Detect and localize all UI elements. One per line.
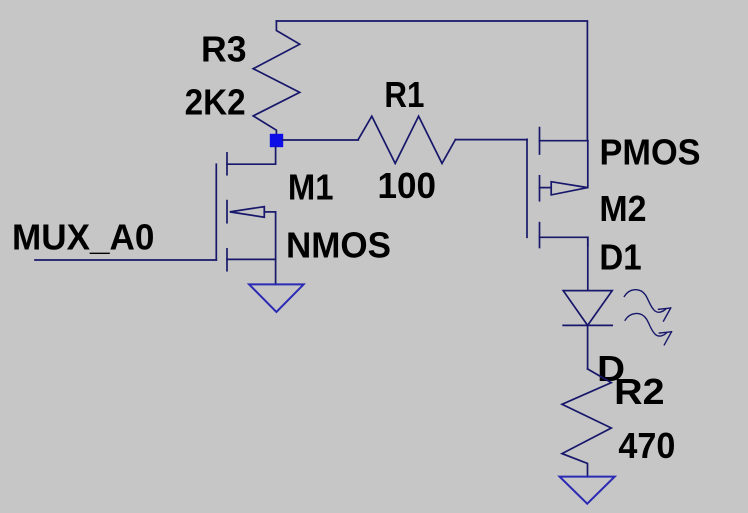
- gate bar: [526, 139, 528, 237]
- svg-text:R3: R3: [201, 29, 247, 70]
- svg-text:MUX_A0: MUX_A0: [12, 217, 154, 258]
- gate bar: [215, 164, 217, 260]
- source lead: [227, 259, 276, 284]
- wire node to R1: [283, 139, 358, 141]
- svg-text:R1: R1: [384, 74, 424, 115]
- ground at M1 source: [249, 284, 304, 312]
- resistor R1: [358, 116, 455, 163]
- LED emission arrow lower: [625, 313, 671, 344]
- drain lead: [227, 147, 276, 164]
- channel bottom segment: [226, 249, 228, 271]
- wire M2 drain to D1 anode: [587, 237, 589, 290]
- svg-text:470: 470: [618, 425, 675, 466]
- svg-text:PMOS: PMOS: [600, 131, 701, 172]
- svg-text:M2: M2: [599, 188, 646, 229]
- wire R1 right to M2 gate: [455, 139, 527, 141]
- channel middle segment: [226, 201, 228, 223]
- svg-text:M1: M1: [288, 167, 334, 208]
- transistor M2 PMOS: [527, 128, 588, 248]
- channel top segment: [539, 128, 541, 154]
- svg-text:D1: D1: [599, 237, 641, 278]
- svg-text:R2: R2: [614, 371, 664, 412]
- drain lead: [540, 237, 588, 246]
- diode D1 LED: [563, 291, 612, 326]
- wire top rail from R3 top to M2 source column: [276, 21, 587, 141]
- LED emission arrow upper: [624, 290, 670, 321]
- node junction at R3 bottom / M1 drain / R1 left: [270, 134, 283, 147]
- channel bottom segment: [539, 223, 541, 248]
- wire MUX_A0 to M1 gate: [35, 259, 216, 261]
- channel middle segment: [539, 176, 541, 201]
- resistor R2: [562, 369, 611, 477]
- resistor R3: [253, 21, 300, 141]
- svg-text:100: 100: [378, 165, 437, 206]
- body arrow: [540, 187, 552, 189]
- wire D1 cathode to R2, net D: [587, 325, 589, 369]
- svg-text:NMOS: NMOS: [286, 225, 391, 266]
- transistor M1 NMOS: [216, 147, 275, 284]
- ground at R2 bottom: [560, 477, 615, 504]
- source lead: [540, 140, 588, 142]
- body arrow: [230, 207, 264, 218]
- svg-text:2K2: 2K2: [185, 82, 246, 123]
- channel top segment: [226, 153, 228, 175]
